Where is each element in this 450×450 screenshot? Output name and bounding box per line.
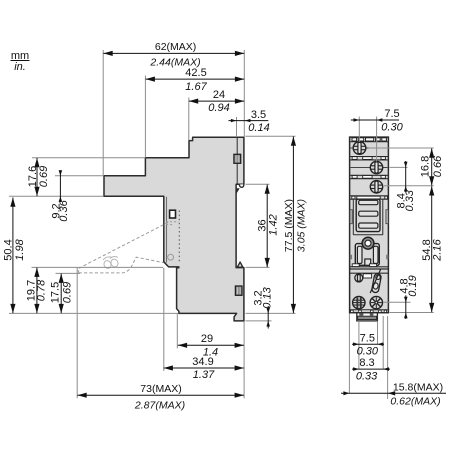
bottom screw right <box>370 296 382 308</box>
screw hole circle <box>168 254 174 260</box>
svg-text:0.13: 0.13 <box>262 286 274 308</box>
svg-text:0.30: 0.30 <box>357 346 379 358</box>
svg-text:2.16: 2.16 <box>432 238 444 261</box>
latch window <box>170 210 176 218</box>
ext line 42.5 left <box>144 76 146 158</box>
dimension 54.8 <box>421 186 444 312</box>
svg-text:0.33: 0.33 <box>404 189 416 211</box>
svg-text:62(MAX): 62(MAX) <box>155 41 196 53</box>
svg-text:0.78: 0.78 <box>36 279 48 301</box>
ext line 62 left <box>102 50 104 175</box>
white notch <box>363 274 371 278</box>
svg-text:15.8(MAX): 15.8(MAX) <box>393 382 443 394</box>
dimension 19.7 <box>26 268 48 314</box>
side groove bars <box>350 210 352 224</box>
window bottom lines <box>353 234 383 236</box>
right ext lines <box>246 135 296 137</box>
dimension 24 <box>189 89 244 114</box>
legend mm/in <box>11 50 30 73</box>
bottom ext lines <box>163 268 165 371</box>
clip rect upper <box>234 154 241 163</box>
divider 1 <box>350 157 389 160</box>
svg-text:in.: in. <box>14 61 26 73</box>
svg-text:2.87(MAX): 2.87(MAX) <box>134 400 185 412</box>
svg-text:73(MAX): 73(MAX) <box>140 383 181 395</box>
svg-text:0.62(MAX): 0.62(MAX) <box>390 396 440 408</box>
inner walls <box>352 199 354 235</box>
hidden edge dashed <box>178 211 180 264</box>
front inner line <box>166 197 168 263</box>
svg-text:0.66: 0.66 <box>432 155 444 177</box>
dimension 7.5 top <box>351 108 404 134</box>
svg-text:0.14: 0.14 <box>248 122 269 134</box>
dimension 16.8 <box>420 148 444 185</box>
dimension 15.8(MAX) <box>341 382 446 408</box>
front right ext lines <box>369 147 434 149</box>
ext line right top <box>243 50 245 137</box>
svg-text:42.5: 42.5 <box>185 67 206 79</box>
keyhole lever <box>370 269 381 293</box>
screw 1 <box>351 142 369 155</box>
dimension 34.9 <box>164 356 244 381</box>
svg-text:24: 24 <box>213 89 225 101</box>
dimension 3.5 <box>229 109 270 134</box>
ext line 3.5 left <box>236 117 238 137</box>
svg-text:0.33: 0.33 <box>356 370 378 382</box>
svg-text:17.5: 17.5 <box>50 282 62 303</box>
divider 3 <box>352 264 359 267</box>
dimension 9.2 <box>50 170 70 222</box>
small circle with slot <box>355 274 363 282</box>
din rail top hook (U notch) <box>239 184 243 187</box>
foot <box>357 313 378 321</box>
dimension 8.3 <box>352 357 390 382</box>
svg-text:8.3: 8.3 <box>359 357 374 369</box>
svg-text:7.5: 7.5 <box>384 108 399 120</box>
front ext lines top <box>358 117 360 143</box>
svg-text:1.98: 1.98 <box>14 238 26 260</box>
ext line 24 left <box>188 98 190 141</box>
side view body <box>104 137 244 321</box>
svg-text:1.67: 1.67 <box>185 81 207 93</box>
relay window <box>356 199 380 231</box>
screw 2 <box>351 161 388 173</box>
svg-text:0.30: 0.30 <box>381 122 403 134</box>
svg-text:0.94: 0.94 <box>208 102 229 114</box>
front bottom ext lines <box>348 314 350 394</box>
dimension 36 <box>257 185 280 268</box>
dimension 8.4 <box>396 161 417 212</box>
screw 3 <box>370 181 382 193</box>
left ext lines <box>32 157 145 159</box>
svg-text:29: 29 <box>201 333 213 345</box>
svg-text:3.5: 3.5 <box>251 109 266 121</box>
strip above relay window <box>350 196 389 199</box>
dimension 62(MAX) <box>103 41 244 69</box>
bottom strip <box>350 310 389 313</box>
svg-text:50.4: 50.4 <box>3 239 15 260</box>
dimension 29 <box>178 333 244 359</box>
svg-text:7.5: 7.5 <box>360 332 375 344</box>
clip rect lower <box>235 286 242 295</box>
collar ring <box>362 237 374 249</box>
svg-text:16.8: 16.8 <box>420 156 432 177</box>
dimension 73(MAX) <box>77 383 244 412</box>
lever dashed outline (open position) <box>79 222 179 273</box>
svg-text:0.69: 0.69 <box>38 166 50 187</box>
svg-text:1.37: 1.37 <box>193 369 215 381</box>
dimension 17.5 <box>50 274 74 314</box>
divider 2 <box>350 175 389 178</box>
svg-text:3.05 (MAX): 3.05 (MAX) <box>296 199 308 252</box>
svg-text:0.69: 0.69 <box>62 282 74 303</box>
dimension 42.5 <box>146 67 245 93</box>
dimension 4.8 <box>399 275 420 319</box>
M block <box>355 244 379 266</box>
svg-text:1.42: 1.42 <box>267 214 279 235</box>
dimension 3.2 <box>253 286 274 328</box>
lever hinge squiggle <box>103 256 120 269</box>
top slot strip <box>350 141 389 143</box>
front body <box>350 137 389 313</box>
dimension 50.4 <box>3 198 26 314</box>
dimension 7.5 bottom <box>352 332 384 357</box>
svg-text:77.5 (MAX): 77.5 (MAX) <box>283 199 295 252</box>
inner rib line top <box>236 138 238 184</box>
dimension 17.6 <box>27 158 50 196</box>
svg-text:0.36: 0.36 <box>58 199 70 221</box>
dimension 77.5 (MAX) <box>283 137 308 314</box>
channel barb <box>236 189 239 194</box>
svg-text:0.19: 0.19 <box>407 275 419 296</box>
bottom screw left <box>353 296 365 308</box>
svg-text:34.9: 34.9 <box>192 356 213 368</box>
din rail bottom clip tip <box>237 262 243 267</box>
